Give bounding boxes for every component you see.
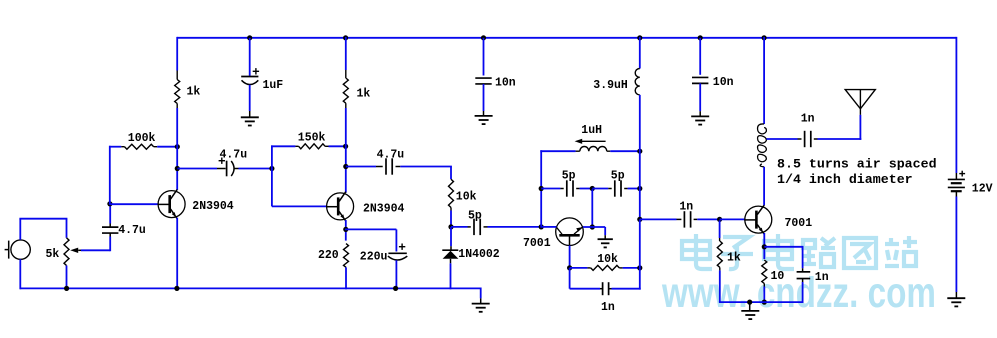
wire node D up to 150k [271, 145, 295, 169]
capacitor C14 1n [797, 272, 811, 279]
resistor R3 1k [175, 71, 180, 109]
label R10 10 [771, 270, 785, 283]
capacitor C1 4.7u [102, 224, 118, 237]
node C collector Q1 [175, 166, 180, 171]
label C12 10n [713, 76, 734, 89]
svg-text:1n: 1n [679, 200, 693, 213]
wire node H to D1 [450, 227, 452, 246]
label C5 5p [468, 209, 482, 222]
label C8 5p [562, 170, 576, 183]
wire 1uH to vertical [610, 150, 640, 152]
label R2 100k [128, 132, 156, 145]
node C6-rail [393, 286, 398, 291]
node supply-choke [637, 35, 642, 40]
capacitor C12 10n [692, 77, 708, 83]
capacitor C4 4.7u [386, 158, 400, 174]
svg-text:5p: 5p [468, 209, 482, 222]
wire C9 to vertical [628, 188, 641, 190]
label C9 5p [611, 170, 625, 183]
capacitor C5 5p [474, 219, 488, 235]
svg-text:7001: 7001 [785, 217, 813, 230]
svg-text:4.7u: 4.7u [377, 148, 405, 161]
microphone MIC1 [5, 240, 31, 259]
watermark cndzz [682, 234, 917, 269]
label R6 220 [318, 249, 339, 262]
wire base node up to 100k [109, 146, 121, 205]
wire 1k to bottom wire [719, 270, 804, 302]
wire tank left vertical [540, 150, 575, 228]
wire node J to C8 [541, 188, 564, 190]
label L2 1uH [581, 124, 602, 137]
node PA ground stem [747, 300, 752, 305]
svg-text:10k: 10k [456, 191, 477, 204]
wire collector node to C3 [177, 168, 225, 170]
capacitor C8 5p [567, 180, 580, 196]
resistor R5 1k [343, 70, 348, 108]
wire C11 to base node [697, 218, 720, 220]
resistor R4 150k [295, 144, 328, 149]
node R10-bottom [762, 300, 767, 305]
label C14 1n [815, 271, 829, 284]
label C11 1n [679, 200, 693, 213]
wire mic top to pot [19, 219, 67, 240]
wire C13 to antenna [818, 115, 862, 140]
wire D1 to rail [450, 263, 452, 289]
svg-text:1N4002: 1N4002 [458, 248, 500, 261]
wire 100k to node [157, 146, 178, 148]
svg-text:www. cndzz. com: www. cndzz. com [661, 270, 936, 317]
wire 1k to nodes [176, 108, 178, 190]
svg-text:10: 10 [771, 270, 785, 283]
svg-text:5p: 5p [562, 170, 576, 183]
wire node H to C5 [451, 226, 471, 228]
svg-text:1uF: 1uF [263, 79, 284, 92]
wire rail to coil [763, 37, 765, 124]
capacitor C6 220u [388, 244, 407, 261]
transistor Q3 7001 [556, 218, 584, 246]
capacitor C3 4.7u [219, 158, 239, 177]
node pot-rail [64, 286, 69, 291]
wire C6 to rail [395, 260, 397, 289]
wire 220 to rail [343, 241, 346, 290]
svg-text:4.7u: 4.7u [118, 224, 146, 237]
label C2 1uF [263, 79, 284, 92]
svg-text:12V: 12V [972, 182, 993, 195]
node J tank-5p row [539, 186, 544, 191]
wire Q4 emitter down [763, 233, 765, 259]
wire emitter node to ground [583, 227, 605, 239]
wire C7 to ground [483, 84, 485, 116]
wire output node down [639, 219, 641, 268]
wire emitter node right [764, 247, 803, 272]
label C6 220u [360, 250, 388, 263]
svg-text:1k: 1k [727, 252, 741, 265]
label R4 150k [298, 132, 326, 145]
wire C8 to node L [580, 188, 594, 190]
node E 150k-collector [343, 144, 348, 149]
wire mic bottom to rail [19, 259, 21, 289]
label R7 10k [456, 191, 477, 204]
svg-text:7001: 7001 [523, 237, 551, 250]
wire Q1 emitter to rail [176, 218, 178, 289]
capacitor C9 5p [615, 180, 628, 196]
wire node R down to 1k [719, 220, 721, 238]
ground battery [947, 298, 965, 306]
resistor R6 220 [344, 244, 349, 268]
wire node D to Q2 base [272, 169, 327, 207]
label Q3 7001 [523, 237, 551, 250]
wire top supply rail [177, 37, 957, 39]
inductor L3 8.5 turns [758, 124, 767, 167]
label C4 4.7u [377, 148, 405, 161]
label B1 12V [972, 182, 993, 195]
node F collector Q2 [343, 164, 348, 169]
label Q1 2N3904 [192, 200, 234, 213]
wire C14 to bottom wire [802, 279, 804, 303]
svg-text:1n: 1n [815, 271, 829, 284]
wire Q2 emitter down [345, 220, 347, 241]
svg-text:3.9uH: 3.9uH [593, 79, 628, 92]
svg-text:2N3904: 2N3904 [192, 200, 234, 213]
label C3 4.7u [220, 149, 248, 162]
wire PA ground stem [749, 302, 751, 311]
label R9 1k [727, 252, 741, 265]
capacitor C11 1n [684, 211, 697, 227]
wire node F to C4 [346, 166, 383, 168]
node H varicap [448, 224, 453, 229]
wire C2 to ground [249, 85, 251, 118]
label C7 10n [495, 76, 516, 89]
node supply-R5 [343, 35, 348, 40]
wire C3 to node D [239, 168, 273, 170]
wire rail to C2 [249, 38, 251, 76]
label Q2 2N3904 [363, 203, 405, 216]
node I base Q3 [539, 224, 544, 229]
label D1 1N4002 [458, 248, 500, 261]
label R1 5k [46, 248, 60, 261]
diode D1 1N4002 [442, 246, 458, 263]
wire Q3 base horiz [542, 226, 556, 228]
svg-text:220: 220 [318, 249, 339, 262]
wire C10 to vertical [612, 268, 641, 290]
svg-text:1n: 1n [601, 301, 615, 314]
wire rail to C7 [483, 38, 485, 76]
node supply-C12 [698, 35, 703, 40]
wire pot bottom to rail [66, 266, 68, 290]
wire coil tap [767, 138, 802, 140]
ground PA [741, 311, 759, 319]
node supply-coil [762, 35, 767, 40]
inductor L1 3.9uH [635, 69, 640, 95]
wire node O to R8 [570, 267, 591, 269]
node Q output [637, 217, 642, 222]
wire pot top stem [66, 219, 68, 238]
node O feedback left [567, 265, 572, 270]
inductor L2 1uH [575, 139, 611, 152]
label Q4 7001 [785, 217, 813, 230]
svg-text:5k: 5k [46, 248, 60, 261]
svg-text:1uH: 1uH [581, 124, 602, 137]
wire node O down to C10 [570, 268, 603, 289]
wire 150k to node E [329, 145, 347, 147]
wire rail to C12 [699, 38, 701, 75]
svg-text:1/4 inch diameter: 1/4 inch diameter [777, 172, 913, 187]
antenna ANT1 [845, 90, 875, 115]
wire R8 to vertical [623, 267, 641, 269]
svg-text:1k: 1k [187, 86, 201, 99]
svg-text:1k: 1k [357, 88, 371, 101]
wire coil to collector [763, 167, 765, 205]
resistor R8 10k [591, 265, 623, 270]
node D after C3 [269, 166, 274, 171]
node R base Q4 [717, 217, 722, 222]
svg-text:10k: 10k [597, 253, 618, 266]
wire R10 to bottom [763, 287, 765, 304]
node supply-C7 [481, 35, 486, 40]
wire 10k to node H [450, 211, 452, 228]
wire C1 to base node [109, 204, 111, 224]
wire rail to choke [639, 37, 641, 69]
wire bottom ground rail [20, 287, 480, 289]
wire C5 to Q3 base node [488, 226, 543, 228]
ground C7 [475, 116, 493, 124]
svg-text:220u: 220u [360, 250, 388, 263]
label C10 1n [601, 301, 615, 314]
node Q1 emitter-rail [174, 286, 179, 291]
wire rail to 1k2 [345, 37, 347, 70]
capacitor C2 1uF [241, 68, 259, 84]
resistor R2 100k [121, 144, 157, 149]
wire C12 to ground [699, 83, 701, 116]
potentiometer R1 5k [64, 238, 82, 266]
label R5 1k [357, 88, 371, 101]
svg-text:5p: 5p [611, 170, 625, 183]
node M 5p right [637, 186, 642, 191]
ground C2 [241, 117, 259, 125]
wire node L down to emitter [591, 189, 593, 228]
label R3 1k [187, 86, 201, 99]
wire emitter to C6 [345, 229, 397, 251]
battery B1 12V [948, 171, 965, 197]
wire supply right down [955, 37, 957, 180]
wire battery to ground [955, 197, 957, 299]
svg-text:10n: 10n [495, 76, 516, 89]
transistor Q2 2N3904 [326, 192, 354, 221]
label C1 4.7u [118, 224, 146, 237]
wire base node to Q4 [720, 218, 745, 220]
node B 100k-collector [175, 144, 180, 149]
svg-text:2N3904: 2N3904 [363, 203, 405, 216]
ground C12 [691, 116, 709, 124]
capacitor C13 1n [805, 131, 818, 147]
resistor R10 10 [762, 260, 767, 287]
node S emitter Q4 [762, 244, 767, 249]
transistor Q1 2N3904 [158, 189, 186, 218]
label L1 3.9uH [593, 79, 628, 92]
wire C4 to R7 [400, 167, 452, 180]
node supply-C2 [247, 35, 252, 40]
wire rail end ground stem [480, 288, 482, 304]
svg-text:4.7u: 4.7u [220, 149, 248, 162]
label R8 10k [597, 253, 618, 266]
resistor R9 1k [717, 238, 722, 270]
node L 5p junction [590, 186, 595, 191]
svg-text:8.5 turns air spaced: 8.5 turns air spaced [777, 156, 937, 171]
node N emitter junction [590, 224, 595, 229]
capacitor C7 10n [475, 78, 491, 84]
node P feedback right [637, 265, 642, 270]
resistor R7 10k [449, 179, 454, 210]
node A base Q1 [107, 201, 112, 206]
svg-text:100k: 100k [128, 132, 156, 145]
capacitor C10 1n [603, 282, 612, 295]
transistor Q4 7001 [744, 205, 772, 234]
svg-text:10n: 10n [713, 76, 734, 89]
ground Q3 collector [598, 239, 613, 247]
note coil text [777, 156, 937, 187]
wire Q3 base lead down [569, 246, 571, 269]
svg-text:150k: 150k [298, 132, 326, 145]
wire 1k2 to Q2 collector [345, 108, 347, 193]
wire node L to C9 [592, 188, 611, 190]
node K 1uH right [637, 149, 642, 154]
wire pot wiper to C1 [81, 237, 110, 252]
wire choke to output node [639, 95, 641, 220]
label C13 1n [801, 113, 815, 126]
ground main rail [472, 304, 490, 312]
svg-text:1n: 1n [801, 113, 815, 126]
wire rail to 1k [176, 37, 178, 71]
node G emitter Q2 [343, 227, 348, 232]
wire base node to Q1 base [110, 203, 159, 205]
wire output to C11 [640, 218, 682, 220]
